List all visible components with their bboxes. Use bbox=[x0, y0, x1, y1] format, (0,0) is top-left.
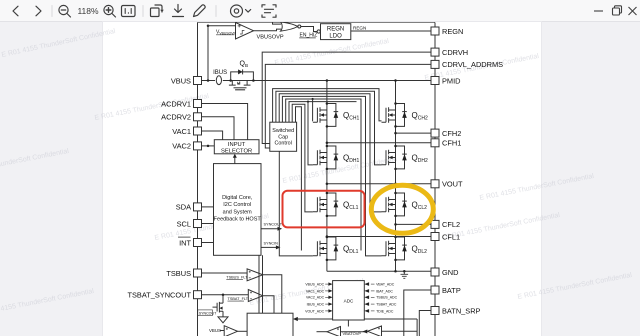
wire comparator chain bbox=[341, 330, 368, 334]
wire adc to vbatovp bbox=[347, 320, 349, 327]
comparator VBUS bottom bbox=[224, 326, 237, 336]
svg-text:VBUS_ADC: VBUS_ADC bbox=[305, 283, 324, 287]
label TSBUS_FLT bbox=[226, 275, 248, 279]
label SYNCOUT boxed bbox=[198, 310, 217, 316]
svg-text:REGN: REGN bbox=[327, 27, 344, 33]
adc input IBUS_ADC bbox=[307, 302, 333, 306]
pin PMID bbox=[431, 76, 460, 85]
svg-text:CFH1: CFH1 bbox=[442, 139, 461, 148]
gate loop QDL2 bbox=[282, 96, 381, 256]
separator 3 bbox=[215, 6, 217, 17]
svg-text:VAC1_ADC: VAC1_ADC bbox=[306, 289, 325, 293]
wire sense vertical bbox=[416, 319, 418, 336]
wire digital core to system block a bbox=[258, 255, 260, 313]
gate feed QDL1 from scc bbox=[279, 151, 313, 256]
wire CFH1 bbox=[327, 142, 431, 144]
svg-text:SYNCIN: SYNCIN bbox=[264, 241, 279, 245]
ocr scan icon bbox=[262, 5, 276, 17]
svg-text:VAC1: VAC1 bbox=[172, 127, 191, 136]
block ADC bbox=[333, 281, 365, 320]
wire BATN_SRP bbox=[419, 311, 431, 336]
signal SYNCIN arrow bbox=[261, 241, 281, 249]
adc input TSBAT_ADC bbox=[364, 302, 397, 306]
pin BATP bbox=[431, 286, 461, 295]
svg-text:E R01 4155 ThunderSoft Confide: E R01 4155 ThunderSoft Confidential bbox=[282, 156, 398, 185]
svg-text:SYNCOUT: SYNCOUT bbox=[264, 223, 283, 227]
svg-text:E R01 4155 ThunderSoft Confide: E R01 4155 ThunderSoft Confidential bbox=[0, 148, 70, 177]
svg-text:QDL1: QDL1 bbox=[343, 244, 359, 255]
zoom in icon bbox=[104, 5, 116, 17]
wire VAC1 to input selector bbox=[202, 131, 223, 140]
gate loop QDH2 bbox=[276, 91, 382, 165]
svg-text:E R01 4155 ThunderSoft Confide: E R01 4155 ThunderSoft Confidential bbox=[479, 173, 595, 202]
junction CFL1 bbox=[326, 235, 329, 238]
svg-text:IBUS: IBUS bbox=[213, 70, 227, 76]
svg-text:QDL2: QDL2 bbox=[412, 244, 428, 255]
current sense IBUS ellipse bbox=[216, 76, 221, 85]
right border rail bbox=[434, 23, 436, 336]
wire INT bbox=[202, 242, 214, 244]
inverter bubble regn ldo bbox=[317, 30, 320, 33]
pin CDRVH bbox=[431, 48, 468, 57]
junction VOUT right bbox=[394, 183, 397, 186]
wire VBUS to PMID bbox=[202, 80, 432, 82]
pin VAC2 bbox=[172, 142, 201, 151]
transistor QCL1 bbox=[313, 192, 359, 217]
transistor QDL2 bbox=[382, 236, 428, 261]
svg-text:VBUS: VBUS bbox=[171, 76, 191, 85]
comparator VBUSOVP bbox=[236, 23, 284, 41]
svg-text:SELECTOR: SELECTOR bbox=[221, 148, 252, 154]
svg-text:Digital Core,: Digital Core, bbox=[222, 195, 253, 201]
highlight red box QCL1 bbox=[283, 191, 365, 228]
transistor QCH2 bbox=[382, 102, 428, 127]
svg-text:REGN: REGN bbox=[442, 27, 463, 36]
pin CDRVL_ADDRMS bbox=[431, 60, 503, 69]
pin CFL1 bbox=[431, 232, 460, 241]
comparator TSBUS bbox=[247, 269, 263, 281]
wire CDRVH bbox=[262, 52, 431, 143]
svg-text:Cap: Cap bbox=[278, 134, 288, 140]
svg-text:ACDRV1: ACDRV1 bbox=[161, 99, 191, 108]
wire ACDRV2 to input selector bbox=[202, 117, 235, 140]
wire BATP bbox=[404, 290, 431, 336]
or gate bbox=[281, 22, 301, 31]
wire CDRVL bbox=[265, 64, 431, 148]
wire adc feedback into block bbox=[293, 317, 417, 321]
svg-text:IBUS_ADC: IBUS_ADC bbox=[307, 303, 325, 307]
svg-text:VAC2_ADC: VAC2_ADC bbox=[306, 296, 325, 300]
svg-text:INT: INT bbox=[179, 238, 191, 247]
wire SDA bbox=[202, 206, 214, 208]
svg-text:CDRVH: CDRVH bbox=[442, 48, 468, 57]
wire regn ldo to pin bbox=[351, 30, 431, 32]
block digital core bbox=[214, 164, 262, 256]
transistor QB back to back fets bbox=[229, 81, 251, 90]
svg-text:QDH1: QDH1 bbox=[343, 153, 359, 164]
wire SCL bbox=[202, 223, 214, 225]
pin TSBAT_SYNCOUT bbox=[127, 291, 201, 300]
svg-text:Switched: Switched bbox=[272, 128, 294, 134]
minimize button bbox=[594, 10, 603, 12]
svg-text:QCH1: QCH1 bbox=[343, 111, 359, 122]
wire TSBUS comparator output bbox=[263, 275, 282, 313]
svg-text:CFH2: CFH2 bbox=[442, 129, 461, 138]
svg-text:E R01 4155 ThunderSoft Confide: E R01 4155 ThunderSoft Confidential bbox=[1, 28, 117, 59]
svg-text:TSBAT_ADC: TSBAT_ADC bbox=[376, 303, 397, 307]
wire comparator to or gate bbox=[254, 29, 282, 31]
svg-text:TDIE_ADC: TDIE_ADC bbox=[376, 309, 394, 313]
block switched cap control bbox=[270, 122, 297, 151]
svg-text:SDA: SDA bbox=[176, 203, 191, 212]
close button bbox=[629, 7, 637, 15]
wire GND rail bbox=[327, 270, 431, 272]
pin CFH2 bbox=[431, 129, 461, 138]
ic top border bbox=[198, 21, 436, 23]
junction VOUT left bbox=[326, 183, 329, 186]
pin REGN bbox=[431, 27, 463, 36]
pin ACDRV2 bbox=[161, 113, 201, 122]
wire VAC2 to input selector bbox=[202, 145, 215, 147]
svg-text:QCH2: QCH2 bbox=[412, 111, 428, 122]
wire comparator input bbox=[208, 25, 236, 27]
left border rail bbox=[197, 23, 199, 336]
adc input VAC1_ADC bbox=[306, 289, 333, 293]
junction TSBAT syncout fet bbox=[222, 293, 225, 296]
pin SDA bbox=[176, 203, 202, 212]
svg-text:GND: GND bbox=[442, 268, 458, 277]
gate loop QCL1 bbox=[292, 104, 313, 212]
signal SYNCOUT arrow bbox=[261, 223, 283, 231]
wire VBUS bottom comparator input bbox=[220, 330, 224, 332]
wire CFH2 bbox=[396, 132, 432, 134]
svg-text:Control: Control bbox=[275, 141, 292, 147]
block INPUT SELECTOR bbox=[214, 140, 259, 155]
wire or gate to regn ldo bbox=[301, 27, 317, 32]
svg-text:TSBUS_ADC: TSBUS_ADC bbox=[376, 296, 397, 300]
svg-text:E R01 4155 ThunderSoft Confide: E R01 4155 ThunderSoft Confidential bbox=[517, 272, 633, 301]
wire TSBUS to comparator bbox=[202, 272, 248, 274]
wire VBUS comparator output bbox=[238, 330, 248, 332]
svg-text:I2C Control: I2C Control bbox=[223, 202, 251, 208]
document page bbox=[103, 22, 541, 336]
pin VBUS bbox=[171, 76, 202, 85]
svg-text:TSBAT_SYNCOUT: TSBAT_SYNCOUT bbox=[127, 291, 191, 300]
wire VOUT bbox=[327, 183, 431, 185]
svg-text:VAC2: VAC2 bbox=[172, 142, 191, 151]
transistor QCH1 bbox=[313, 102, 360, 127]
junction VAC2 tap bbox=[207, 145, 210, 148]
svg-text:IBAT_ADC: IBAT_ADC bbox=[376, 289, 393, 293]
transistor QCL2 bbox=[382, 192, 428, 217]
wire TSBAT to comparator bbox=[202, 294, 249, 296]
svg-text:ADC: ADC bbox=[344, 299, 354, 304]
svg-text:CFL1: CFL1 bbox=[442, 232, 460, 241]
rotate icon bbox=[151, 5, 164, 17]
adc input IBAT_ADC bbox=[364, 289, 393, 293]
pin ACDRV1 bbox=[161, 99, 201, 108]
edit pen icon bbox=[194, 5, 206, 17]
wire ACDRV1 to input selector bbox=[202, 104, 248, 140]
adc input VAC2_ADC bbox=[306, 296, 333, 300]
block REGN LDO bbox=[321, 24, 351, 40]
junction CFH2 bbox=[394, 132, 397, 135]
comparator VBATOVP bbox=[327, 327, 341, 336]
pin BATN_SRP bbox=[431, 306, 481, 315]
svg-text:E R01 4155 ThunderSoft Confide: E R01 4155 ThunderSoft Confidential bbox=[445, 212, 561, 241]
gate drop QCH1 bbox=[312, 99, 314, 121]
highlight yellow circle QCL2 bbox=[371, 185, 433, 233]
transistor syncout pulldown bbox=[213, 295, 224, 317]
label V_VBUSOVP bbox=[216, 30, 236, 36]
gate drop QDH1 bbox=[308, 102, 313, 165]
adc input VBUS_ADC bbox=[305, 282, 332, 286]
download icon bbox=[173, 5, 184, 17]
wire TSBAT comparator output bbox=[263, 296, 274, 313]
svg-text:QCL1: QCL1 bbox=[343, 200, 359, 211]
pin GND bbox=[431, 268, 458, 277]
svg-text:TSBUS: TSBUS bbox=[166, 269, 191, 278]
svg-text:and System: and System bbox=[223, 209, 252, 215]
adc input TDIE_ADC bbox=[364, 309, 394, 313]
comparator TSBAT bbox=[248, 290, 262, 302]
svg-text:TSBUS_FLT: TSBUS_FLT bbox=[226, 275, 248, 279]
junction QCH1 tap bbox=[312, 98, 314, 100]
svg-text:CFL2: CFL2 bbox=[442, 220, 460, 229]
svg-text:SYNCOUT: SYNCOUT bbox=[199, 311, 217, 315]
transistor QDH2 bbox=[382, 145, 428, 170]
right stack rail bbox=[395, 81, 397, 272]
separator 2 bbox=[142, 6, 144, 17]
junction PMID left stack bbox=[326, 79, 329, 82]
transistor QDH1 bbox=[313, 145, 360, 170]
transistor QB top diode branch bbox=[229, 69, 254, 81]
junction CFH1 bbox=[326, 142, 329, 145]
adc input VBAT_ADC bbox=[364, 282, 394, 286]
svg-text:E R01 4155 ThunderSoft Confide: E R01 4155 ThunderSoft Confidential bbox=[94, 93, 210, 122]
gate loop QCH2 bbox=[273, 89, 382, 123]
svg-text:VBAT_ADC: VBAT_ADC bbox=[376, 283, 395, 287]
junction GND symbol tap bbox=[403, 270, 406, 273]
svg-text:VBUSOVP: VBUSOVP bbox=[257, 35, 284, 41]
junction QDH1 tap bbox=[307, 101, 309, 103]
gate loop QCH1 bbox=[286, 99, 361, 251]
wire CFL1 bbox=[327, 236, 431, 238]
svg-text:VBUS: VBUS bbox=[209, 328, 221, 333]
block bottom system bbox=[247, 313, 293, 336]
svg-text:VOUT_ADC: VOUT_ADC bbox=[305, 309, 325, 313]
wire vbat sense bbox=[382, 330, 418, 332]
toolbar background bbox=[0, 0, 640, 22]
separator 1 bbox=[51, 6, 53, 17]
svg-text:ACDRV2: ACDRV2 bbox=[161, 113, 191, 122]
svg-text:QDH2: QDH2 bbox=[412, 153, 428, 164]
pin VOUT bbox=[431, 180, 463, 189]
pin CFH1 bbox=[431, 139, 461, 148]
svg-text:BATP: BATP bbox=[442, 286, 461, 295]
svg-text:QB: QB bbox=[240, 61, 249, 68]
wire CFL2 bbox=[396, 223, 432, 225]
svg-text:QCL2: QCL2 bbox=[412, 200, 428, 211]
junction PMID right stack bbox=[394, 79, 397, 82]
adc input TSBUS_ADC bbox=[364, 296, 397, 300]
1:1 icon bbox=[122, 6, 136, 17]
svg-text:LDO: LDO bbox=[329, 34, 342, 40]
gate loop QDH1 bbox=[289, 102, 357, 123]
svg-text:CDRVL_ADDRMS: CDRVL_ADDRMS bbox=[442, 60, 503, 69]
zoom out icon bbox=[59, 5, 71, 17]
wire digital core to system block b bbox=[262, 255, 264, 313]
adc input VOUT_ADC bbox=[305, 309, 332, 313]
junction GND right stack bbox=[394, 270, 397, 273]
label EN_HIZ bbox=[299, 33, 317, 39]
wire VBATOVP output bbox=[317, 331, 328, 333]
pin SCL bbox=[177, 219, 202, 228]
svg-text:VOUT: VOUT bbox=[442, 180, 463, 189]
pin CFL2 bbox=[431, 220, 460, 229]
label TSBAT_FLT bbox=[228, 297, 249, 301]
comparator VBATOVP2 bbox=[368, 326, 382, 336]
svg-text:BATN_SRP: BATN_SRP bbox=[442, 306, 481, 315]
junction CFL2 bbox=[394, 223, 397, 226]
back chevron bbox=[13, 6, 18, 16]
arrow digital core to input selector bbox=[233, 154, 237, 164]
ground triangle syncout bbox=[218, 317, 228, 323]
junction VBUS sense bbox=[207, 79, 210, 82]
pin VAC1 bbox=[172, 127, 201, 136]
forward chevron bbox=[36, 6, 41, 16]
wire VBUSOVP tap vertical bbox=[207, 26, 209, 81]
gate loop QDL1 bbox=[296, 107, 302, 251]
svg-text:SCL: SCL bbox=[177, 219, 191, 228]
toolbar icons svg bbox=[0, 0, 640, 22]
pin TSBUS bbox=[166, 269, 201, 278]
restore button bbox=[613, 6, 622, 15]
svg-text:Feedback to HOST: Feedback to HOST bbox=[214, 217, 262, 223]
svg-text:118%: 118% bbox=[77, 6, 99, 16]
left stack rail bbox=[326, 81, 328, 272]
svg-text:TSBAT_FLT: TSBAT_FLT bbox=[228, 297, 249, 301]
svg-text:PMID: PMID bbox=[442, 76, 460, 85]
svg-text:INPUT: INPUT bbox=[228, 142, 246, 148]
transistor QDL1 bbox=[313, 236, 359, 261]
svg-text:E R01 4155 ThunderSoft Confide: E R01 4155 ThunderSoft Confidential bbox=[0, 288, 95, 317]
gate loop QCL2 bbox=[279, 94, 381, 212]
pin INT with overline bbox=[178, 237, 202, 247]
wire or gate top input bbox=[273, 23, 281, 25]
ground symbol bbox=[401, 271, 409, 278]
node comparator input bbox=[207, 24, 210, 27]
circle tool icon with caret bbox=[231, 5, 251, 17]
svg-text:REGN: REGN bbox=[353, 26, 366, 31]
